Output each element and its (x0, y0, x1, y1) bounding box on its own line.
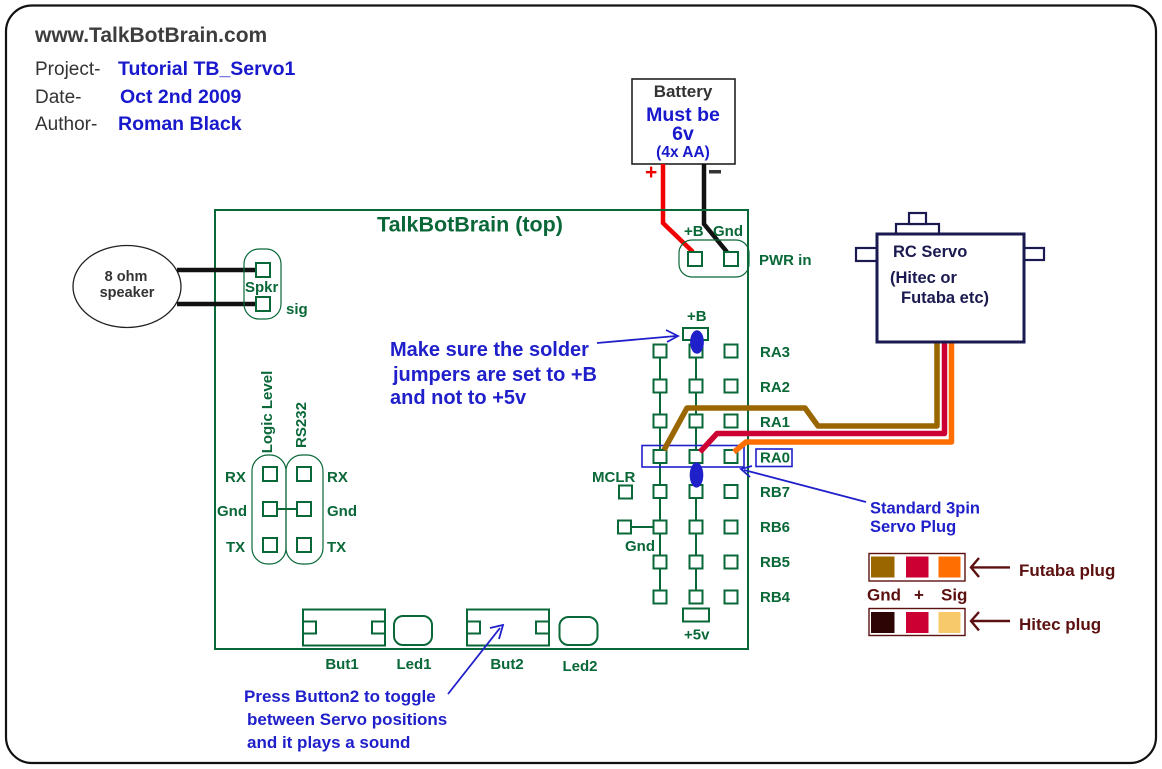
svg-text:Tutorial TB_Servo1: Tutorial TB_Servo1 (118, 58, 296, 80)
battery B1 (632, 79, 735, 164)
highlight box servo plug row (642, 446, 744, 468)
svg-text:Project-: Project- (35, 59, 100, 80)
Hitec plug swatch (869, 609, 965, 636)
wire servo + crimson (700, 343, 945, 452)
annotation standard 3pin servo plug (870, 500, 980, 537)
svg-text:Hitec plug: Hitec plug (1019, 615, 1101, 634)
Futaba plug swatch (869, 554, 965, 582)
svg-text:But2: But2 (490, 656, 523, 673)
svg-text:Gnd: Gnd (327, 503, 357, 520)
svg-text:Press Button2 to toggle: Press Button2 to toggle (244, 687, 436, 706)
svg-text:speaker: speaker (100, 285, 155, 301)
svg-text:Gnd: Gnd (625, 538, 655, 555)
svg-text:(4x AA): (4x AA) (656, 144, 710, 161)
annotation press button2 (244, 687, 447, 752)
pad +B jumper (683, 328, 708, 340)
pads middle column (690, 345, 703, 604)
svg-text:RC Servo: RC Servo (893, 243, 967, 261)
svg-text:TalkBotBrain (top): TalkBotBrain (top) (377, 213, 563, 237)
svg-text:MCLR: MCLR (592, 469, 635, 486)
svg-text:RX: RX (327, 469, 348, 486)
svg-text:RS232: RS232 (293, 402, 310, 448)
svg-text:and it plays a sound: and it plays a sound (247, 733, 410, 752)
svg-text:+B: +B (684, 223, 704, 240)
connector Spkr (244, 249, 281, 319)
svg-text:Spkr: Spkr (245, 279, 279, 296)
wire servo Sig orange (734, 343, 952, 452)
svg-text:Futaba plug: Futaba plug (1019, 561, 1115, 580)
LED Led1 (394, 616, 432, 645)
battery terminal - label (709, 170, 721, 174)
svg-text:sig: sig (286, 301, 308, 318)
pad MCLR (619, 486, 632, 499)
PCB board TalkBotBrain outline (215, 210, 748, 649)
svg-text:between Servo positions: between Servo positions (247, 710, 447, 729)
svg-text:RB7: RB7 (760, 484, 790, 501)
pads right column (725, 345, 738, 604)
pad +5v jumper (683, 609, 709, 622)
svg-text:www.TalkBotBrain.com: www.TalkBotBrain.com (34, 24, 267, 47)
svg-text:Gnd: Gnd (217, 503, 247, 520)
wire Gnd pad link (631, 526, 653, 528)
wire battery positive (663, 164, 693, 252)
svg-text:Author-: Author- (35, 114, 97, 135)
svg-text:RA2: RA2 (760, 379, 790, 396)
svg-text:Sig: Sig (941, 586, 967, 605)
arrow to But2 (448, 625, 503, 694)
svg-text:RB6: RB6 (760, 519, 790, 536)
svg-text:Battery: Battery (654, 82, 713, 101)
wire Gnd link (277, 508, 297, 510)
speaker SP1 (73, 246, 181, 328)
arrow to +B jumper (597, 330, 678, 343)
solder jumper blob +B (690, 330, 704, 354)
svg-text:Date-: Date- (35, 87, 81, 108)
svg-text:jumpers are set to +B: jumpers are set to +B (392, 364, 597, 386)
svg-text:Servo Plug: Servo Plug (870, 518, 956, 536)
svg-text:+: + (914, 586, 924, 605)
arrow to servo plug row (741, 466, 866, 502)
svg-text:Oct 2nd 2009: Oct 2nd 2009 (120, 86, 242, 108)
svg-text:(Hitec or: (Hitec or (890, 269, 958, 287)
arrow Hitec (971, 612, 1010, 631)
arrow Futaba (971, 558, 1010, 577)
label RA0 boxed (756, 449, 792, 467)
wire speaker top (177, 268, 259, 273)
RC Servo M1 (856, 213, 1044, 342)
svg-text:Gnd: Gnd (867, 586, 901, 605)
LED Led2 (560, 617, 598, 645)
svg-text:Led2: Led2 (562, 658, 597, 675)
svg-text:+B: +B (687, 308, 707, 325)
connector Logic Level (252, 455, 286, 564)
connector RS232 (286, 455, 323, 564)
wire speaker bottom (177, 302, 259, 307)
svg-text:TX: TX (327, 539, 346, 556)
svg-text:But1: But1 (325, 656, 358, 673)
button But2 (467, 610, 549, 646)
svg-text:TX: TX (226, 539, 245, 556)
svg-text:Logic Level: Logic Level (259, 371, 276, 454)
svg-text:+: + (645, 161, 657, 184)
connector PWR in (679, 240, 749, 277)
svg-text:Gnd: Gnd (713, 223, 743, 240)
solder jumper blob RA0 (690, 462, 704, 487)
svg-text:Roman Black: Roman Black (118, 113, 242, 135)
svg-text:Make sure the solder: Make sure the solder (390, 339, 589, 361)
svg-text:RX: RX (225, 469, 246, 486)
svg-text:+5v: +5v (684, 627, 710, 644)
svg-text:Led1: Led1 (396, 656, 431, 673)
svg-text:6v: 6v (672, 123, 694, 145)
wire bus left column (659, 351, 661, 597)
label Gnd + Sig (867, 586, 967, 605)
svg-text:RA0: RA0 (760, 450, 790, 467)
svg-text:RB5: RB5 (760, 554, 790, 571)
pads left column (654, 345, 667, 604)
svg-text:and not to +5v: and not to +5v (390, 387, 527, 409)
button But1 (303, 610, 385, 646)
wire servo Gnd brown (664, 343, 937, 450)
svg-text:RA3: RA3 (760, 344, 790, 361)
svg-text:Standard 3pin: Standard 3pin (870, 500, 980, 518)
annotation solder jumpers (390, 339, 597, 409)
svg-text:RA1: RA1 (760, 414, 790, 431)
svg-text:RB4: RB4 (760, 589, 791, 606)
wire bus middle column (695, 334, 697, 604)
wire battery negative (704, 164, 727, 252)
pad Gnd (618, 521, 631, 534)
svg-text:8 ohm: 8 ohm (105, 269, 148, 285)
svg-text:Futaba etc): Futaba etc) (901, 289, 989, 307)
svg-text:PWR in: PWR in (759, 252, 812, 269)
